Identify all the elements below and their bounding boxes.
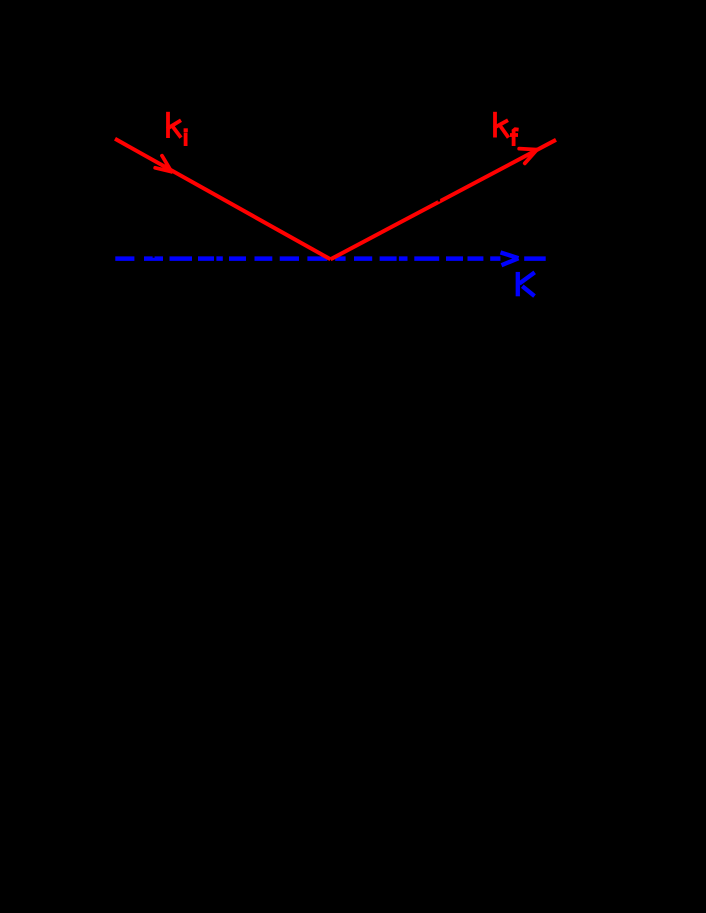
label k_i bbox=[167, 112, 188, 146]
wire: dashed momentum-transfer line K (individual dashes) bbox=[115, 256, 545, 261]
label K bbox=[518, 272, 535, 296]
arrowhead on k_i bbox=[155, 156, 171, 172]
wire: reflected wave vector line k_f bbox=[331, 140, 557, 259]
wire: incident wave vector line k_i bbox=[115, 139, 331, 259]
arrowhead on k_f bbox=[519, 149, 537, 164]
arrowhead on K bbox=[501, 252, 519, 265]
label k_f bbox=[494, 112, 519, 146]
notch where two hand-drawn dashes join bbox=[153, 256, 155, 257]
notch where two hand-drawn k_f strokes join bbox=[438, 199, 440, 201]
